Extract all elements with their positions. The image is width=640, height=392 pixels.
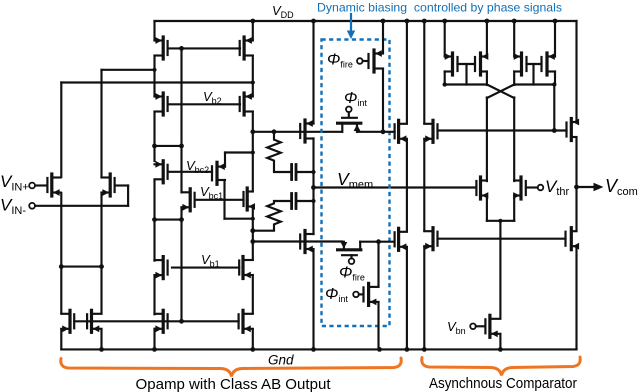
arrow blue pointer	[350, 14, 352, 32]
junction x181.5 y219.6	[179, 217, 184, 222]
junction comp tail	[498, 219, 502, 223]
transistor Tb2 (bias NMOS)	[436, 232, 438, 246]
wire Pb drain down	[486, 72, 488, 86]
transistor P4 Vb2 right PMOS	[239, 97, 241, 111]
wire Ta2 source down	[406, 247, 408, 349]
terminal Vbn	[470, 324, 476, 330]
svg-text:Asynchnous Comparator: Asynchnous Comparator	[429, 376, 577, 392]
wire Nb1R source down	[252, 276, 254, 314]
wire Pd source up	[554, 21, 556, 56]
wire tail rung	[61, 266, 101, 268]
junction gate wire x181.7	[179, 46, 184, 51]
junction Mfire_up drain	[381, 129, 386, 134]
capacitor C2	[290, 194, 293, 209]
wire Min- drain up	[100, 70, 102, 177]
junction C2 join	[311, 199, 315, 203]
terminal VIN-	[29, 203, 35, 209]
transistor Ncmp+ (comp input NMOS)	[475, 181, 477, 195]
wire Nb1L source down	[153, 275, 155, 314]
wire comp tail down	[499, 221, 501, 318]
transistor Tb (bias NMOS)	[436, 124, 438, 138]
wire Pa-Pb gate join	[458, 63, 476, 65]
wire node A (y70.5)	[102, 69, 155, 71]
junction latch right corner	[552, 82, 556, 86]
wire R1 to C1	[274, 171, 290, 173]
junction node B	[251, 80, 255, 84]
wire Nbn source down	[499, 334, 501, 349]
junction on VDD rail	[250, 19, 255, 24]
wire NtailA source	[60, 329, 62, 349]
junction Vcom node	[574, 185, 579, 190]
junction Vmem node	[311, 185, 316, 190]
transistor Nbn (bias NMOS)	[484, 319, 486, 333]
transistor Te (output PMOS)	[565, 123, 567, 137]
wire VIN+ to gate	[35, 184, 46, 186]
junction Pbc2R top join	[251, 150, 255, 154]
wire cross diagonal 1	[487, 85, 514, 99]
terminal Phi_fire lower	[349, 258, 355, 264]
wire latch right down	[553, 85, 555, 131]
transistor NtailB (bottom NMOS 2)	[86, 314, 88, 328]
junction on VDD rail	[311, 19, 316, 24]
transistor Min- (input NMOS right)	[113, 178, 115, 192]
wire Nbc1R source down	[252, 207, 254, 260]
wire Pa-Pb gate stub	[465, 64, 467, 85]
junction tail right	[99, 264, 104, 269]
wire P4 drain down to O1	[252, 112, 254, 191]
brace opamp	[61, 358, 401, 377]
wire Vbn gate lead	[476, 325, 485, 327]
wire Te source up	[575, 21, 577, 122]
junction node A	[152, 68, 156, 72]
junction x252.8 y230.7	[250, 228, 255, 233]
wire Mint_dn source down	[377, 302, 379, 349]
transistor Pd (PMOS diode right)	[540, 57, 542, 71]
wire gate-bus vertical x181	[180, 48, 182, 192]
wire N6 source down	[312, 250, 314, 350]
wire Pbc2L drain down	[153, 180, 155, 261]
wire res2 bottom	[253, 230, 274, 232]
transistor Mint_dn (NMOS)	[362, 287, 364, 301]
wire Ta drain up	[406, 21, 408, 123]
wire NtailC source	[153, 329, 155, 350]
wire Phi_int lower gate lead	[359, 293, 363, 295]
transistor Ncmp- (comp input NMOS)	[525, 181, 527, 195]
wire crossover y145.9	[155, 145, 182, 147]
svg-text:Gnd: Gnd	[268, 353, 294, 368]
switch Mfire_dn (horizontal NMOS)	[343, 242, 345, 250]
junction res2 tap	[250, 228, 255, 233]
wire Tb drain up	[423, 21, 425, 123]
svg-text:Opamp with Class AB Output: Opamp with Class AB Output	[136, 377, 331, 392]
transistor NtailC (bottom NMOS 3)	[167, 314, 169, 328]
junction on VDD rail	[442, 19, 447, 24]
terminal Phi_fire upper	[357, 58, 363, 64]
junction on VDD rail	[512, 19, 517, 24]
terminal VIN+	[29, 183, 35, 189]
wire Ncmp- source down	[513, 196, 515, 221]
wire P2-P1 gate wire	[168, 47, 240, 49]
transistor Min+ (input NMOS left)	[46, 178, 48, 192]
wire Min+ source down	[60, 193, 62, 313]
wire Min- source down	[100, 193, 102, 313]
terminal Phi_int upper	[346, 107, 352, 113]
terminal Phi_int lower	[353, 292, 359, 298]
wire Nbc1L source down	[180, 207, 182, 321]
wire Vbc1 gate wire	[196, 199, 244, 201]
wire C2 to output column	[297, 200, 313, 202]
wire Vb1 gate wire	[172, 267, 239, 269]
wire P1 source up	[252, 21, 254, 40]
wire latch node right	[514, 83, 555, 85]
switch Mint_up (horizontal NMOS)	[348, 112, 350, 117]
transistor Pb (PMOS cross left)	[474, 57, 476, 71]
wire bias O2 inside box	[360, 241, 393, 243]
wire Pc-Pd gate join	[527, 63, 542, 65]
wire P5 source up	[312, 21, 314, 124]
transistor NtailA (bottom NMOS 1)	[73, 314, 75, 328]
transistor Tf (output NMOS)	[564, 232, 566, 246]
wire Pc drain down	[513, 72, 515, 86]
wire Tb source down	[423, 139, 425, 230]
wire Ncmp+ source down	[486, 196, 488, 221]
junction O1 y131.8	[250, 129, 255, 134]
wire Min+ drain up	[60, 83, 62, 178]
transistor Nb1R (Vb1 right NMOS)	[238, 261, 240, 275]
wire crossover y219.6	[155, 219, 182, 221]
transistor P1 (top PMOS right)	[239, 41, 241, 55]
wire Pa drain down	[444, 72, 446, 85]
junction on Gnd rail	[498, 347, 503, 352]
junction on VDD rail	[381, 19, 386, 24]
wire Vmem	[314, 186, 476, 188]
wire bias line O2 (y241.5)	[253, 240, 342, 242]
wire node B (y82.5)	[61, 81, 253, 83]
svg-text:Dynamic biasing controlled by: Dynamic biasing controlled by phase sign…	[317, 2, 562, 15]
wire Pbc2R top to column	[225, 151, 253, 153]
wire Pbc2R top lead up	[224, 153, 226, 167]
wire cross diagonal 2	[487, 85, 514, 99]
junction on VDD rail	[485, 19, 490, 24]
wire cross right down	[513, 98, 515, 182]
transistor Nb1L (Vb1 left NMOS)	[167, 261, 169, 275]
transistor Mfire_up (PMOS)	[367, 54, 369, 68]
transistor P5 (output PMOS)	[299, 124, 301, 138]
junction x154.5 y145.9	[152, 144, 157, 149]
wire Te drain down / Tf drain	[575, 138, 577, 231]
junction Pbc2R bottom join	[251, 217, 255, 221]
junction res1 tap	[272, 129, 277, 134]
wire Pc-Pd gate stub	[532, 64, 534, 85]
wire bias line O1 (y131.8)	[253, 131, 342, 133]
wire Vthr gate lead	[526, 186, 538, 188]
junction mirror bus x181.4	[179, 319, 184, 324]
wire Tb2 source down	[423, 247, 425, 350]
junction on VDD rail	[405, 19, 410, 24]
transistor Pc (PMOS cross right)	[525, 57, 527, 71]
arrow Vcom	[594, 183, 604, 191]
resistor R2	[267, 201, 281, 231]
junction C1 join	[311, 170, 315, 174]
junction Pa drain elbow	[443, 82, 447, 86]
transistor Nbc1R (Vbc1 right NMOS)	[242, 192, 244, 206]
wire Pc source up	[513, 21, 515, 56]
junction x252.8 y241.5	[250, 239, 255, 244]
wire latch node left	[445, 83, 487, 85]
wire VDD top rail	[155, 20, 577, 22]
dashed box dynamic biasing	[322, 40, 390, 327]
wire VIN- line	[35, 205, 128, 207]
wire Vcom out	[577, 186, 595, 188]
junction on Gnd rail	[422, 347, 427, 352]
wire Mint_dn drain up	[377, 242, 379, 287]
wire P3 drain down	[153, 112, 155, 161]
wire Pbc2R bottom lead down	[223, 180, 225, 219]
junction on VDD rail	[422, 19, 427, 24]
transistor Pa (PMOS diode left)	[456, 57, 458, 71]
capacitor C1	[290, 165, 293, 180]
wire Mfire_up source up	[382, 21, 384, 53]
brace comparator	[422, 357, 580, 376]
transistor Nbc1L (Vbc1 left NMOS)	[194, 193, 196, 207]
wire Tf source down	[575, 247, 577, 350]
transistor NtailD (bottom NMOS 4)	[238, 314, 240, 328]
transistor Ta (bias NMOS)	[394, 124, 396, 138]
junction on Gnd rail	[250, 347, 255, 352]
junction x154.5 y219.6	[152, 217, 157, 222]
wire comp tail rung	[487, 220, 514, 222]
transistor Pbc2L (Vbc2 left PMOS)	[167, 165, 169, 179]
wire Pbc2R bottom to column	[225, 218, 253, 220]
junction on Gnd rail	[377, 347, 382, 352]
wire Vbc2 gate wire	[168, 171, 212, 173]
wire Pb source up	[486, 21, 488, 56]
wire Phi_fire gate lead	[363, 60, 368, 62]
wire Min- gate loop	[116, 184, 128, 186]
wire Nb1L drain up	[153, 259, 155, 262]
junction on Gnd rail	[311, 347, 316, 352]
junction Tb gate bus	[552, 128, 557, 133]
wire Tb2-Tf gate bus	[438, 238, 566, 240]
wire Tb gate bus	[438, 129, 567, 131]
wire cross left down	[486, 98, 488, 182]
junction x181.5 y145.9	[179, 144, 184, 149]
junction on Gnd rail	[405, 347, 410, 352]
transistor P3 Vb2 left PMOS	[167, 97, 169, 111]
wire NtailB source	[100, 329, 102, 349]
junction tail left	[59, 264, 64, 269]
terminal Vthr	[538, 185, 544, 191]
transistor N6 (output NMOS)	[299, 235, 301, 249]
resistor R1	[267, 132, 281, 172]
wire P1 drain to P4 source	[252, 56, 254, 96]
junction on Gnd rail	[99, 347, 104, 352]
wire Gnd bottom rail	[61, 348, 576, 350]
wire Pd drain down	[554, 72, 556, 85]
wire NtailD source	[252, 329, 254, 349]
wire bias O1 inside box	[357, 131, 395, 133]
wire P5 drain down / N6 drain	[312, 139, 314, 235]
wire Mfire_up drain down	[382, 69, 384, 132]
wire Pa source up	[444, 21, 446, 56]
wire P2 drain to P3 source	[153, 56, 155, 96]
wire bottom mirror gate bus	[74, 320, 238, 322]
wire Vb2 gate wire	[168, 103, 240, 105]
wire Ta source down	[406, 139, 408, 231]
wire P2 source up	[153, 21, 155, 40]
wire R2 to C2	[274, 200, 290, 202]
junction on VDD rail	[553, 19, 558, 24]
wire C1 to output column	[297, 171, 313, 173]
junction on Gnd rail	[152, 347, 157, 352]
transistor Pbc2R (Vbc2 right PMOS)	[211, 166, 213, 180]
transistor P2 (top PMOS left)	[167, 41, 169, 55]
transistor Ta2 (bias NMOS)	[394, 232, 396, 246]
junction Mint_dn drain	[376, 239, 381, 244]
